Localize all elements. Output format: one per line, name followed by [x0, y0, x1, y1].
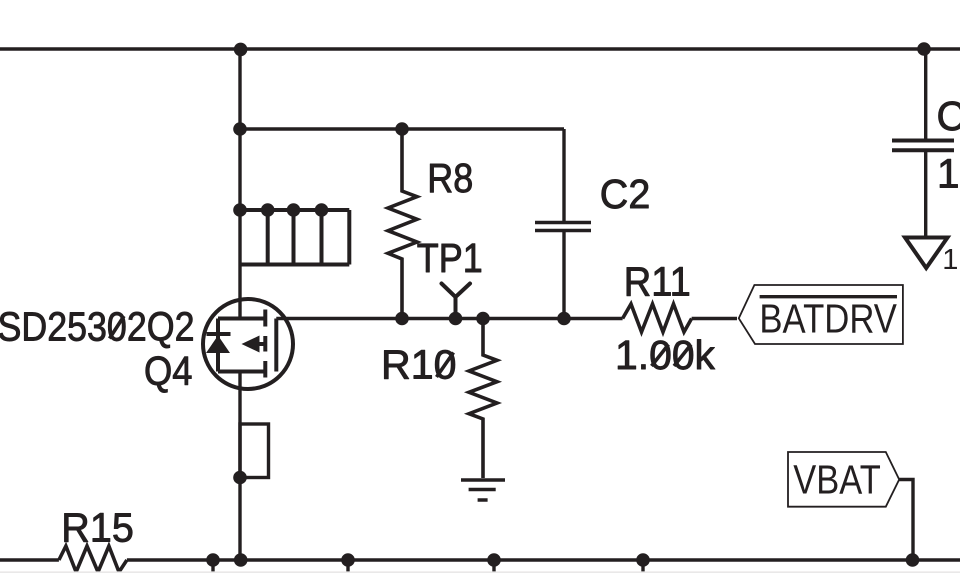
comb of paralleled pins	[240, 210, 349, 265]
junction bottom 3	[341, 553, 355, 567]
junction bottom 2	[234, 553, 248, 567]
junction bottom 4	[487, 553, 501, 567]
wire top rail	[0, 47, 960, 50]
junction comb pin3	[287, 203, 301, 217]
label R10	[381, 342, 457, 388]
junction top rail left	[234, 43, 248, 57]
svg-text:1: 1	[937, 151, 960, 197]
net flag VBAT	[788, 452, 899, 507]
svg-text:BATDRV: BATDRV	[759, 296, 897, 342]
svg-text:C1: C1	[937, 93, 960, 139]
drain shunt rectangle	[240, 424, 269, 478]
svg-text:TP1: TP1	[417, 235, 483, 281]
junction node y129	[233, 122, 247, 136]
svg-text:SD25302Q2: SD25302Q2	[0, 304, 195, 350]
junction drain	[233, 471, 247, 485]
wire stub down 2	[346, 560, 349, 573]
label 1.00k	[615, 332, 716, 378]
junction R10 top	[476, 312, 490, 326]
transistor Q4	[203, 299, 293, 389]
svg-text:Q4: Q4	[144, 348, 193, 394]
wire stub down 1	[211, 560, 214, 573]
svg-text:R8: R8	[427, 155, 473, 201]
label SD25302Q2	[0, 304, 195, 350]
junction bottom 5	[636, 553, 650, 567]
svg-text:VBAT: VBAT	[793, 456, 881, 502]
junction R8 bottom	[395, 312, 409, 326]
junction comb pin2	[261, 203, 275, 217]
wire bottom rail right	[127, 558, 960, 561]
wire VBAT tail	[899, 480, 913, 561]
svg-text:R11: R11	[624, 259, 691, 305]
test point TP1	[442, 284, 471, 319]
resistor R15	[59, 546, 127, 572]
junction C2 bottom	[557, 312, 571, 326]
wire stub down 3	[492, 560, 495, 573]
junction bottom 6	[906, 553, 920, 567]
wire R11 to flag	[692, 317, 737, 320]
wire horizontal y129	[240, 127, 564, 130]
wire stub down 4	[641, 560, 644, 573]
svg-text:1: 1	[942, 244, 958, 276]
junction top rail right	[917, 42, 931, 56]
ground R10	[461, 480, 505, 500]
resistor R8	[388, 129, 417, 319]
wire vertical drop to Q4	[238, 49, 241, 319]
wire Q4 drain to bottom rail	[238, 372, 241, 561]
junction R8 top	[395, 122, 409, 136]
net flag BATDRV	[739, 285, 903, 344]
svg-text:R15: R15	[61, 504, 134, 550]
capacitor C (right edge)	[892, 49, 954, 236]
capacitor C2	[535, 129, 591, 319]
resistor R10	[469, 319, 497, 479]
wire bottom rail left	[0, 558, 59, 561]
sheet edge (faint)	[0, 571, 960, 573]
junction comb pin1	[233, 203, 247, 217]
junction TP1	[449, 312, 463, 326]
resistor R11	[623, 304, 692, 332]
junction bottom 1	[206, 553, 220, 567]
wire gate to R11	[276, 317, 622, 320]
junction comb pin4	[315, 203, 329, 217]
svg-text:C2: C2	[600, 171, 651, 217]
svg-text:1.00k: 1.00k	[615, 332, 716, 378]
power symbol triangle	[905, 238, 948, 269]
